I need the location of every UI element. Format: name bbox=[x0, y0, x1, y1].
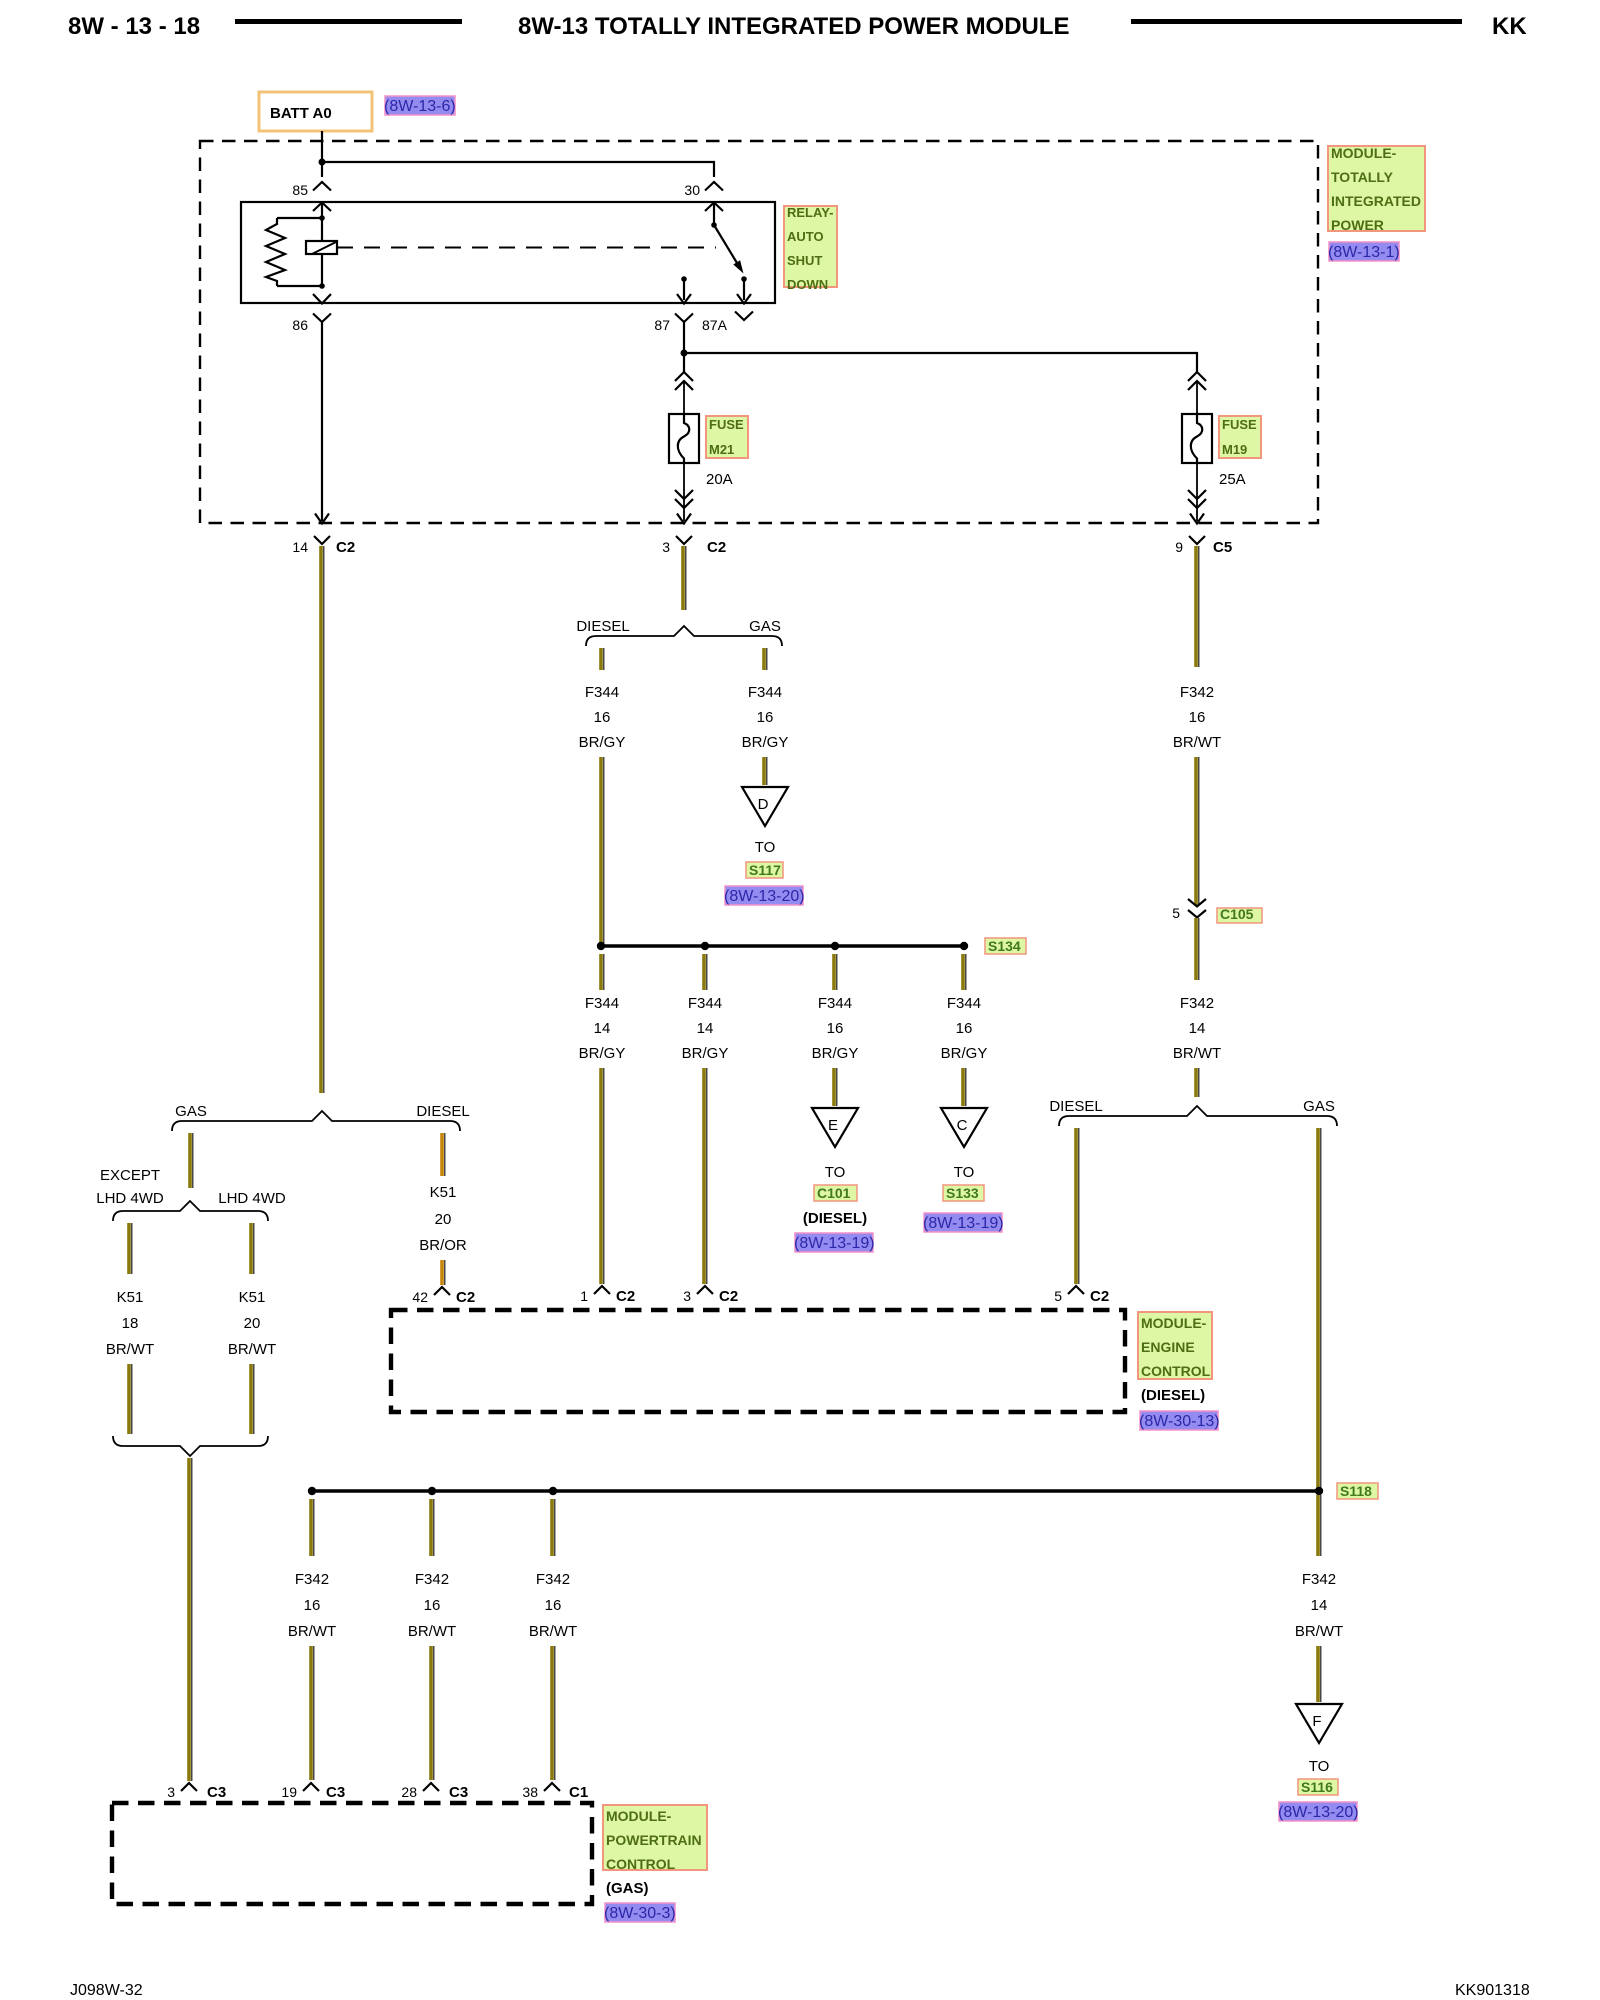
svg-text:S116: S116 bbox=[1301, 1779, 1333, 1795]
svg-text:BR/GY: BR/GY bbox=[682, 1045, 729, 1062]
wire coil bottom link bbox=[277, 285, 322, 287]
svg-text:(8W-13-19): (8W-13-19) bbox=[794, 1235, 875, 1252]
label F342 16 BR/WT leg2 bbox=[408, 1571, 456, 1640]
svg-text:ENGINE: ENGINE bbox=[1141, 1339, 1195, 1355]
svg-text:GAS: GAS bbox=[175, 1103, 207, 1120]
page ref (8W-13-20) bottom bbox=[1278, 1802, 1359, 1821]
svg-text:14: 14 bbox=[594, 1020, 611, 1037]
svg-text:BR/WT: BR/WT bbox=[1173, 734, 1221, 751]
wire S118 leg4 stub bbox=[1318, 1495, 1321, 1556]
svg-text:14: 14 bbox=[292, 539, 308, 555]
label F342 16 BR/WT leg3 bbox=[529, 1571, 577, 1640]
svg-text:20A: 20A bbox=[706, 471, 733, 488]
connector C5 pin 9 exit bbox=[1175, 536, 1232, 556]
wire gas leg stub bbox=[190, 1133, 193, 1188]
label F342 16 BR/WT right col bbox=[1173, 684, 1221, 751]
svg-text:TO: TO bbox=[825, 1164, 846, 1181]
svg-text:5: 5 bbox=[1054, 1288, 1062, 1304]
wire C105 down bbox=[1196, 918, 1199, 980]
wire branch to pin 30 bbox=[322, 162, 714, 177]
svg-text:C2: C2 bbox=[616, 1288, 635, 1305]
node coil top bbox=[319, 215, 325, 221]
svg-text:CONTROL: CONTROL bbox=[1141, 1363, 1211, 1379]
svg-text:E: E bbox=[828, 1117, 838, 1134]
fuse M19 exit arrow bbox=[1190, 514, 1204, 524]
connector C2 pin 5 entry bbox=[1054, 1286, 1109, 1305]
svg-text:86: 86 bbox=[292, 317, 308, 333]
page ref (8W-13-20) bbox=[724, 886, 805, 905]
label FUSE M21 bbox=[706, 416, 748, 458]
module TIPM dashed boundary box bbox=[200, 141, 1318, 523]
wire gas stub to off-page D bbox=[764, 757, 767, 785]
svg-text:F344: F344 bbox=[585, 995, 619, 1012]
svg-text:3: 3 bbox=[167, 1784, 175, 1800]
svg-text:BR/WT: BR/WT bbox=[288, 1623, 336, 1640]
svg-text:C101: C101 bbox=[817, 1185, 851, 1201]
connector C2 pin 3 entry bbox=[683, 1286, 738, 1305]
wire lhd4wd lower bbox=[251, 1364, 254, 1434]
label MODULE-TOTALLY INTEGRATED POWER bbox=[1328, 145, 1425, 233]
page ref (8W-13-1) bbox=[1328, 242, 1400, 261]
svg-text:K51: K51 bbox=[117, 1289, 144, 1306]
label K51 18 BR/WT bbox=[106, 1289, 154, 1358]
svg-text:F342: F342 bbox=[1302, 1571, 1336, 1588]
svg-text:BR/WT: BR/WT bbox=[1295, 1623, 1343, 1640]
connector C3 pin 28 entry bbox=[401, 1783, 468, 1801]
wire 86 exit with arrow bbox=[313, 294, 331, 304]
svg-text:F342: F342 bbox=[536, 1571, 570, 1588]
wire lhd4wd stub bbox=[251, 1223, 254, 1274]
svg-text:BATT A0: BATT A0 bbox=[270, 105, 332, 122]
svg-text:DIESEL: DIESEL bbox=[576, 618, 629, 635]
split brace gas/diesel left trunk bbox=[172, 1103, 470, 1131]
page ref (8W-13-19) bbox=[923, 1213, 1004, 1232]
label F344 14 BR/GY leg1 bbox=[579, 995, 626, 1062]
svg-text:F344: F344 bbox=[585, 684, 619, 701]
pin 85 entry arrow into relay bbox=[313, 203, 331, 212]
svg-text:16: 16 bbox=[1189, 709, 1206, 726]
svg-text:(8W-13-1): (8W-13-1) bbox=[1328, 244, 1400, 261]
fuse M21 exit arrow bbox=[677, 514, 691, 524]
relay switch arm with arrowhead bbox=[714, 225, 737, 263]
page ref (8W-30-13) bbox=[1139, 1411, 1220, 1430]
svg-text:S133: S133 bbox=[946, 1185, 979, 1201]
fuse M21 double chevron out bbox=[675, 490, 693, 508]
svg-text:TO: TO bbox=[1309, 1758, 1330, 1775]
wire gas leg to S118 bbox=[1318, 1128, 1321, 1489]
svg-text:C2: C2 bbox=[1090, 1288, 1109, 1305]
wire S118 leg3 stub bbox=[552, 1499, 555, 1556]
wire gas stub bbox=[764, 648, 767, 670]
svg-text:C3: C3 bbox=[449, 1784, 468, 1801]
svg-text:8W - 13 - 18: 8W - 13 - 18 bbox=[68, 13, 200, 40]
label F344 16 BR/GY leg3 bbox=[812, 995, 859, 1062]
svg-text:DIESEL: DIESEL bbox=[416, 1103, 469, 1120]
svg-text:14: 14 bbox=[1189, 1020, 1206, 1037]
svg-text:(DIESEL): (DIESEL) bbox=[803, 1210, 867, 1227]
wire S134 leg1 to C2-1 bbox=[601, 1068, 604, 1284]
label RELAY-AUTO SHUT DOWN bbox=[784, 205, 837, 292]
svg-text:F342: F342 bbox=[1180, 684, 1214, 701]
wire diesel K51 stub bbox=[442, 1133, 445, 1176]
pin 87 chevron bbox=[675, 314, 693, 323]
svg-text:16: 16 bbox=[594, 709, 611, 726]
svg-text:F344: F344 bbox=[947, 995, 981, 1012]
connector C2 pin 14 exit bbox=[292, 536, 355, 556]
header right rule bbox=[1131, 19, 1462, 24]
svg-text:(8W-13-20): (8W-13-20) bbox=[1278, 1804, 1359, 1821]
svg-text:BR/WT: BR/WT bbox=[529, 1623, 577, 1640]
svg-text:87: 87 bbox=[654, 317, 670, 333]
wire 87 down to fuse junction bbox=[683, 322, 685, 372]
svg-text:(8W-13-19): (8W-13-19) bbox=[923, 1215, 1004, 1232]
label S118 bbox=[1337, 1483, 1378, 1499]
svg-text:BR/OR: BR/OR bbox=[419, 1237, 467, 1254]
wire out of fuse M19 bbox=[1196, 463, 1198, 521]
svg-text:J098W-32: J098W-32 bbox=[70, 1982, 143, 1999]
wire S118 leg1 to C3-19 bbox=[311, 1646, 314, 1780]
label K51 20 BR/OR bbox=[419, 1184, 467, 1254]
svg-text:M19: M19 bbox=[1222, 442, 1247, 457]
svg-text:20: 20 bbox=[244, 1315, 261, 1332]
svg-text:SHUT: SHUT bbox=[787, 253, 822, 268]
svg-text:87A: 87A bbox=[702, 317, 728, 333]
svg-text:S118: S118 bbox=[1340, 1483, 1372, 1499]
off-page connector D bbox=[742, 787, 788, 826]
page ref (8W-30-3) bbox=[604, 1903, 676, 1922]
svg-text:KK: KK bbox=[1492, 13, 1527, 40]
svg-text:BR/GY: BR/GY bbox=[742, 734, 789, 751]
svg-text:FUSE: FUSE bbox=[709, 417, 744, 432]
split brace diesel/gas right col bbox=[1049, 1098, 1337, 1126]
wire S134 leg2 to C2-3 bbox=[704, 1068, 707, 1284]
wire except-lhd4wd stub bbox=[129, 1223, 132, 1274]
svg-text:RELAY-: RELAY- bbox=[787, 205, 833, 220]
fuse M19 branch double chevron in bbox=[1188, 372, 1206, 390]
connector C1 pin 38 entry bbox=[522, 1783, 588, 1801]
svg-text:BR/GY: BR/GY bbox=[812, 1045, 859, 1062]
wire S118 leg1 stub bbox=[311, 1499, 314, 1556]
resistor relay coil winding bbox=[266, 218, 285, 286]
svg-text:16: 16 bbox=[304, 1597, 321, 1614]
fuse/battery feed block: BATT A0 box bbox=[259, 92, 372, 131]
svg-text:25A: 25A bbox=[1219, 471, 1246, 488]
svg-text:20: 20 bbox=[435, 1211, 452, 1228]
wire relay coil branch vertical bbox=[321, 204, 323, 285]
wire F342 14 stub to split bbox=[1196, 1068, 1199, 1097]
svg-text:BR/WT: BR/WT bbox=[1173, 1045, 1221, 1062]
svg-text:85: 85 bbox=[292, 182, 308, 198]
svg-text:18: 18 bbox=[122, 1315, 139, 1332]
wire S118 leg2 stub bbox=[431, 1499, 434, 1556]
svg-text:F342: F342 bbox=[1180, 995, 1214, 1012]
svg-text:MODULE-: MODULE- bbox=[1141, 1315, 1207, 1331]
wire BATT A0 feed down bbox=[321, 131, 323, 177]
svg-text:38: 38 bbox=[522, 1784, 538, 1800]
svg-text:MODULE-: MODULE- bbox=[606, 1808, 672, 1824]
svg-text:8W-13 TOTALLY INTEGRATED POWER: 8W-13 TOTALLY INTEGRATED POWER MODULE bbox=[518, 13, 1070, 40]
svg-text:GAS: GAS bbox=[749, 618, 781, 635]
label C105 bbox=[1217, 906, 1262, 923]
split brace diesel/gas under C2-3 bbox=[576, 618, 782, 646]
svg-text:BR/WT: BR/WT bbox=[106, 1341, 154, 1358]
connector C2 pin 42 entry bbox=[412, 1287, 475, 1306]
node 87A contact bbox=[741, 276, 747, 282]
connector C3 pin 19 entry bbox=[281, 1783, 345, 1801]
svg-text:C5: C5 bbox=[1213, 539, 1232, 556]
wire S134 leg1 stub bbox=[601, 954, 604, 990]
label S134 bbox=[985, 938, 1026, 954]
wire to fuse M19 branch bbox=[684, 353, 1197, 372]
wire K51 BR/OR to C2-42 bbox=[442, 1260, 445, 1285]
svg-text:16: 16 bbox=[545, 1597, 562, 1614]
connector C2 pin 1 entry bbox=[580, 1286, 635, 1305]
svg-text:KK901318: KK901318 bbox=[1455, 1982, 1530, 1999]
svg-text:M21: M21 bbox=[709, 442, 734, 457]
label MODULE-POWERTRAIN CONTROL bbox=[603, 1805, 707, 1872]
fuse M21 branch double chevron in bbox=[675, 372, 693, 390]
label F344 16 BR/GY diesel bbox=[579, 684, 626, 751]
wire except-lhd4wd lower bbox=[129, 1364, 132, 1434]
svg-text:(8W-30-3): (8W-30-3) bbox=[604, 1905, 676, 1922]
svg-text:F344: F344 bbox=[748, 684, 782, 701]
svg-text:TOTALLY: TOTALLY bbox=[1331, 169, 1394, 185]
svg-text:S134: S134 bbox=[988, 938, 1021, 954]
svg-text:16: 16 bbox=[424, 1597, 441, 1614]
label FUSE M19 bbox=[1219, 416, 1261, 458]
wire coil top link bbox=[277, 217, 322, 219]
svg-text:F342: F342 bbox=[295, 1571, 329, 1588]
header left rule bbox=[235, 19, 462, 24]
wire switch common bbox=[713, 204, 715, 225]
relay ASD box bbox=[241, 202, 775, 303]
wire S134 leg4 stub bbox=[963, 954, 966, 990]
connector C3 pin 3 entry bbox=[167, 1783, 226, 1801]
svg-text:C2: C2 bbox=[707, 539, 726, 556]
label F342 14 BR/WT leg4 bbox=[1295, 1571, 1343, 1640]
pin 85 connector chevron bbox=[313, 182, 331, 191]
svg-text:K51: K51 bbox=[430, 1184, 457, 1201]
svg-text:C2: C2 bbox=[456, 1289, 475, 1306]
node junction on feed bbox=[319, 159, 326, 166]
label K51 20 BR/WT bbox=[228, 1289, 276, 1358]
node coil bottom bbox=[319, 283, 325, 289]
fuse M21 bbox=[669, 414, 699, 463]
svg-text:(8W-13-6): (8W-13-6) bbox=[384, 98, 456, 115]
svg-text:42: 42 bbox=[412, 1289, 428, 1305]
module engine control dashed box bbox=[391, 1310, 1125, 1412]
wire S118 leg2 to C3-28 bbox=[431, 1646, 434, 1780]
svg-text:C2: C2 bbox=[336, 539, 355, 556]
wire S134 leg3 to E bbox=[834, 1068, 837, 1106]
wire 87 exit with arrow bbox=[683, 279, 685, 300]
svg-text:16: 16 bbox=[956, 1020, 973, 1037]
svg-text:BR/GY: BR/GY bbox=[579, 734, 626, 751]
svg-text:S117: S117 bbox=[749, 862, 781, 878]
svg-text:BR/WT: BR/WT bbox=[408, 1623, 456, 1640]
svg-text:K51: K51 bbox=[239, 1289, 266, 1306]
svg-text:(GAS): (GAS) bbox=[606, 1880, 649, 1897]
fuse M19 bbox=[1182, 414, 1212, 463]
node switch pivot bbox=[711, 222, 717, 228]
splice S134 bus bbox=[597, 942, 968, 950]
svg-text:D: D bbox=[758, 796, 769, 813]
svg-text:POWERTRAIN: POWERTRAIN bbox=[606, 1832, 702, 1848]
wire merged K51 to C3-3 bbox=[189, 1458, 192, 1781]
svg-text:EXCEPT: EXCEPT bbox=[100, 1167, 160, 1184]
page ref (8W-13-19) diesel bbox=[794, 1233, 875, 1252]
svg-text:5: 5 bbox=[1172, 905, 1180, 921]
svg-text:3: 3 bbox=[683, 1288, 691, 1304]
svg-text:C2: C2 bbox=[719, 1288, 738, 1305]
wire into fuse M21 bbox=[683, 381, 685, 414]
wire S118 leg3 to C1-38 bbox=[552, 1646, 555, 1780]
wire 87A exit with arrow bbox=[743, 279, 745, 300]
svg-text:DOWN: DOWN bbox=[787, 277, 828, 292]
merge brace to single wire bbox=[113, 1436, 268, 1456]
wire diesel stub bbox=[601, 648, 604, 670]
label F342 14 BR/WT right col bbox=[1173, 995, 1221, 1062]
svg-text:(8W-13-20): (8W-13-20) bbox=[724, 888, 805, 905]
svg-text:C3: C3 bbox=[326, 1784, 345, 1801]
svg-text:DIESEL: DIESEL bbox=[1049, 1098, 1102, 1115]
svg-text:3: 3 bbox=[662, 539, 670, 555]
svg-text:LHD 4WD: LHD 4WD bbox=[96, 1190, 164, 1207]
svg-text:BR/GY: BR/GY bbox=[579, 1045, 626, 1062]
svg-text:1: 1 bbox=[580, 1288, 588, 1304]
pin 86 chevron bbox=[313, 314, 331, 323]
svg-text:TO: TO bbox=[755, 839, 776, 856]
svg-text:(8W-30-13): (8W-30-13) bbox=[1139, 1413, 1220, 1430]
svg-text:16: 16 bbox=[827, 1020, 844, 1037]
svg-text:TO: TO bbox=[954, 1164, 975, 1181]
wire dashed actuation link bbox=[337, 247, 716, 249]
connector C2 pin 3 exit bbox=[662, 536, 726, 556]
label MODULE-ENGINE CONTROL bbox=[1138, 1312, 1212, 1379]
wire into fuse M19 bbox=[1196, 381, 1198, 414]
svg-text:BR/GY: BR/GY bbox=[941, 1045, 988, 1062]
connector C105 pin 5 inline bbox=[1172, 899, 1206, 921]
node 87 contact bbox=[681, 276, 687, 282]
wire F344 feed (C2-3 down) bbox=[683, 546, 686, 610]
svg-text:14: 14 bbox=[1311, 1597, 1328, 1614]
svg-text:F: F bbox=[1312, 1713, 1321, 1730]
fuse M19 double chevron out bbox=[1188, 490, 1206, 508]
svg-text:(DIESEL): (DIESEL) bbox=[1141, 1387, 1205, 1404]
svg-text:C1: C1 bbox=[569, 1784, 588, 1801]
svg-text:F342: F342 bbox=[415, 1571, 449, 1588]
wire F342 16 to C105 bbox=[1196, 757, 1199, 905]
wire diesel leg to C2-5 bbox=[1076, 1128, 1079, 1284]
module powertrain control dashed box bbox=[112, 1803, 592, 1904]
svg-text:C105: C105 bbox=[1220, 906, 1254, 922]
off-page connector C bbox=[941, 1108, 987, 1147]
relay coil core symbol bbox=[306, 241, 337, 254]
svg-text:CONTROL: CONTROL bbox=[606, 1856, 676, 1872]
svg-text:14: 14 bbox=[697, 1020, 714, 1037]
svg-text:C3: C3 bbox=[207, 1784, 226, 1801]
svg-text:C: C bbox=[957, 1117, 968, 1134]
label F344 16 BR/GY leg4 bbox=[941, 995, 988, 1062]
svg-text:FUSE: FUSE bbox=[1222, 417, 1257, 432]
svg-text:F344: F344 bbox=[818, 995, 852, 1012]
pin 87A chevron bbox=[735, 312, 753, 321]
page ref (8W-13-6) bbox=[384, 96, 456, 115]
svg-text:GAS: GAS bbox=[1303, 1098, 1335, 1115]
wire out of fuse M21 bbox=[683, 463, 685, 521]
label F342 16 BR/WT leg1 bbox=[288, 1571, 336, 1640]
pin 30 connector chevron bbox=[705, 182, 723, 191]
pin 30 entry arrow into relay bbox=[705, 203, 723, 212]
svg-text:AUTO: AUTO bbox=[787, 229, 824, 244]
svg-text:16: 16 bbox=[757, 709, 774, 726]
wire S134 leg4 to C bbox=[963, 1068, 966, 1106]
svg-text:19: 19 bbox=[281, 1784, 297, 1800]
node fuse feed junction bbox=[681, 350, 688, 357]
wire F342 feed (C5-9 down) bbox=[1196, 546, 1199, 667]
off-page connector F bbox=[1296, 1704, 1342, 1743]
off-page connector E bbox=[812, 1108, 858, 1147]
wire diesel branch to S134 bbox=[601, 757, 604, 944]
split brace except-lhd4wd/lhd4wd bbox=[96, 1167, 286, 1221]
svg-text:F344: F344 bbox=[688, 995, 722, 1012]
svg-text:POWER: POWER bbox=[1331, 217, 1384, 233]
svg-text:9: 9 bbox=[1175, 539, 1183, 555]
wire S118 leg4 to F bbox=[1318, 1646, 1321, 1702]
svg-text:MODULE-: MODULE- bbox=[1331, 145, 1397, 161]
svg-text:30: 30 bbox=[684, 182, 700, 198]
svg-text:BR/WT: BR/WT bbox=[228, 1341, 276, 1358]
label F344 16 BR/GY gas bbox=[742, 684, 789, 751]
label F344 14 BR/GY leg2 bbox=[682, 995, 729, 1062]
wire A0 trunk (C2-14 down to gas/diesel split) bbox=[321, 546, 324, 1093]
wire S134 leg3 stub bbox=[834, 954, 837, 990]
splice S118 bus bbox=[308, 1487, 1323, 1495]
svg-text:28: 28 bbox=[401, 1784, 417, 1800]
wire S134 leg2 stub bbox=[704, 954, 707, 990]
wire 86 to C2 pin 14 bbox=[321, 322, 323, 521]
svg-text:LHD 4WD: LHD 4WD bbox=[218, 1190, 286, 1207]
svg-text:INTEGRATED: INTEGRATED bbox=[1331, 193, 1421, 209]
